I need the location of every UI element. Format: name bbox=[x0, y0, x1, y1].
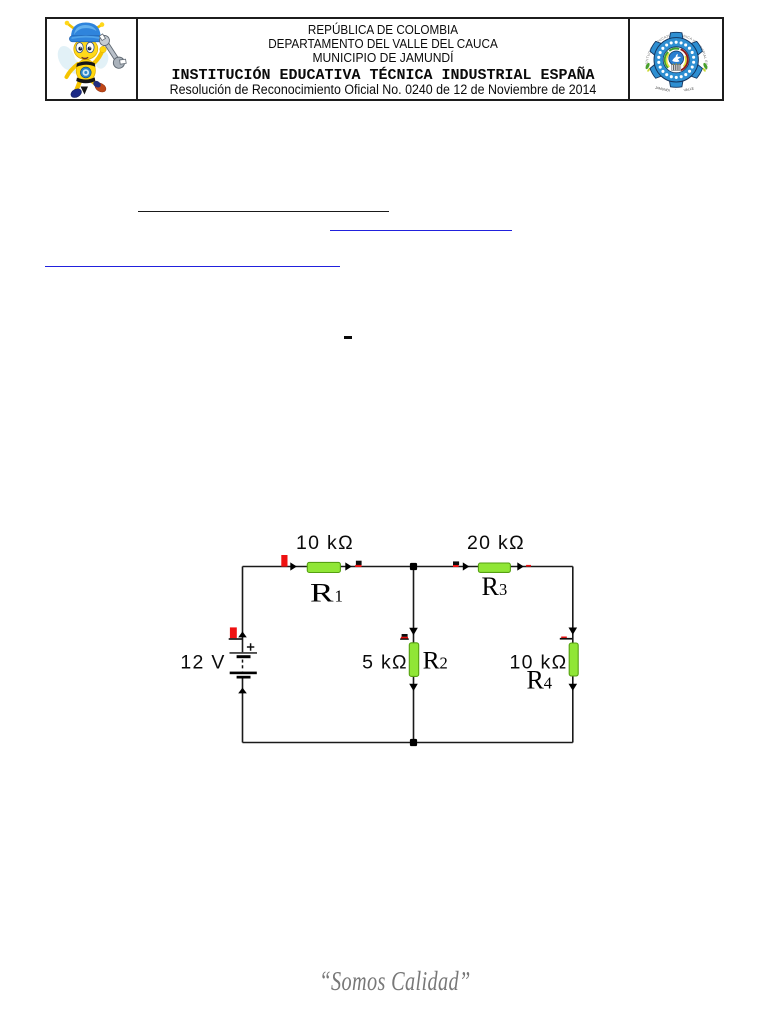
seal right sprig bbox=[702, 62, 708, 72]
bee mouth bbox=[82, 58, 88, 59]
battery V1 plate long 2 bbox=[230, 672, 257, 675]
seal laurel green left bbox=[665, 52, 668, 68]
bee logo placeholder bbox=[46, 18, 138, 100]
circuit placeholder bbox=[140, 500, 660, 760]
seal gear ring bbox=[659, 42, 694, 77]
probe after R1 bbox=[355, 561, 361, 567]
header line 2 bbox=[163, 36, 604, 51]
black underline bbox=[138, 211, 389, 212]
svg-text:5 kΩ: 5 kΩ bbox=[362, 652, 408, 674]
header line 3 bbox=[155, 50, 611, 65]
wire top bbox=[243, 566, 573, 568]
header table borders bbox=[45, 17, 724, 19]
resistor R4 body bbox=[569, 643, 578, 676]
header line 4 bbox=[138, 67, 628, 84]
bee hard hat bbox=[69, 23, 102, 42]
resistor R3 body bbox=[478, 563, 510, 572]
blue underline 1 bbox=[330, 230, 512, 231]
wrench bbox=[96, 31, 128, 71]
probe R4 top bbox=[560, 637, 572, 640]
battery V1 plate short thick bbox=[237, 655, 251, 658]
node A junction dot bbox=[410, 563, 417, 570]
svg-text:R: R bbox=[310, 578, 334, 607]
arrow down below R2 bbox=[409, 684, 418, 691]
wire bottom bbox=[243, 742, 573, 744]
probe after R3 red tick bbox=[526, 565, 531, 567]
probe before R3 bbox=[453, 561, 459, 567]
bee legs bbox=[77, 80, 81, 90]
header line 5 bbox=[158, 82, 609, 97]
wire right bbox=[572, 567, 574, 743]
header line 1 bbox=[163, 22, 604, 37]
battery V1 dashed center bbox=[242, 660, 244, 672]
bee hand on wrench bbox=[100, 46, 106, 52]
arrow down above R2 bbox=[409, 628, 418, 635]
bee belly badge bbox=[80, 67, 91, 78]
arrow after R1 bbox=[345, 562, 352, 570]
arrow down below R4 bbox=[569, 684, 578, 691]
arrow up battery top bbox=[238, 631, 247, 637]
svg-text:10 kΩ: 10 kΩ bbox=[296, 532, 354, 554]
footer script: Somos Calidad bbox=[286, 966, 504, 997]
seal red ribbon right bbox=[681, 49, 688, 70]
wire left upper bbox=[242, 567, 244, 653]
probe R2 top bbox=[400, 634, 409, 640]
seal laurel yellow bbox=[666, 53, 686, 67]
bee torso bbox=[76, 59, 95, 81]
bee stinger bbox=[81, 87, 89, 95]
seal dot ring bbox=[692, 61, 695, 64]
resistor R1 body bbox=[307, 562, 340, 572]
bee wings bbox=[54, 43, 110, 76]
arrow before R3 bbox=[463, 562, 470, 570]
svg-text:1: 1 bbox=[335, 586, 344, 605]
wire middle branch bbox=[413, 567, 415, 743]
bee left shoe bbox=[69, 87, 83, 99]
seal center dove disc bbox=[669, 51, 684, 66]
svg-text:12 V: 12 V bbox=[180, 652, 225, 674]
svg-text:2: 2 bbox=[440, 654, 448, 673]
bee antennae bbox=[68, 24, 102, 31]
bee torso stripe bottom bbox=[76, 77, 95, 83]
svg-text:-: - bbox=[675, 88, 676, 92]
svg-text:4: 4 bbox=[544, 674, 552, 693]
probe battery red flag bbox=[229, 627, 243, 639]
bee right arm raised bbox=[93, 49, 103, 64]
arrow before R1 bbox=[290, 562, 297, 570]
bee torso stripe top bbox=[76, 61, 95, 67]
bee left arm bbox=[67, 64, 79, 77]
seal inner white disc bbox=[663, 47, 689, 73]
svg-text:R: R bbox=[527, 666, 545, 695]
seal gear teeth bbox=[669, 32, 683, 40]
svg-text:20 kΩ: 20 kΩ bbox=[467, 532, 525, 554]
seal pedestal bbox=[672, 63, 681, 70]
battery V1 plus sign bbox=[247, 643, 254, 650]
battery V1 plate long thin bbox=[230, 652, 258, 654]
blue underline 2 bbox=[45, 266, 340, 267]
bee right shoe bbox=[92, 80, 107, 94]
arrow up battery bottom bbox=[238, 688, 247, 694]
seal dove bbox=[672, 54, 681, 62]
seal green top arc bbox=[669, 49, 679, 51]
bee eyes bbox=[76, 42, 94, 52]
dash bbox=[344, 336, 352, 339]
bee head bbox=[74, 39, 98, 60]
svg-text:R: R bbox=[482, 572, 500, 601]
svg-text:R: R bbox=[423, 646, 440, 675]
probe red at top-left wire bbox=[281, 555, 287, 567]
arrow after R3 bbox=[517, 562, 524, 570]
resistor R2 body bbox=[409, 643, 418, 677]
node B junction dot bbox=[410, 739, 417, 746]
svg-text:3: 3 bbox=[499, 580, 507, 599]
arrow down above R4 bbox=[569, 628, 578, 635]
gear logo placeholder bbox=[628, 14, 724, 106]
svg-text:VALLE: VALLE bbox=[683, 86, 695, 92]
seal left sprig bbox=[645, 62, 651, 72]
svg-text:JAMUNDI: JAMUNDI bbox=[655, 86, 671, 93]
battery V1 plate short 2 bbox=[237, 676, 251, 679]
wire left lower bbox=[242, 678, 244, 742]
seal bottom text bbox=[655, 86, 695, 93]
